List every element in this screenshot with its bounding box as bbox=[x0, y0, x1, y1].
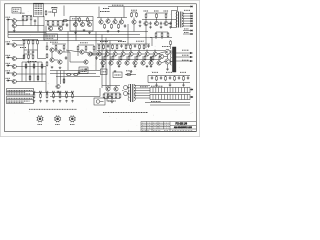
T2 secondary wire bbox=[134, 87, 150, 89]
wire bbox=[9, 43, 12, 45]
ground bbox=[13, 30, 16, 32]
wire bbox=[138, 50, 140, 52]
label K1 bbox=[13, 8, 20, 10]
resistor R8a bbox=[23, 54, 25, 60]
wire bbox=[41, 62, 43, 82]
resistor R38 bbox=[85, 46, 87, 52]
filter choke box L1 bbox=[107, 97, 112, 102]
transistor Q11 bbox=[48, 26, 52, 30]
ground bbox=[85, 68, 88, 70]
resistor R28a bbox=[63, 20, 69, 22]
TB1 divider bbox=[163, 88, 165, 93]
wire bbox=[155, 38, 157, 40]
wire bbox=[93, 51, 95, 56]
meter M1 box bbox=[94, 98, 105, 105]
label A3 row1 bbox=[81, 68, 87, 70]
transistor Q17 bbox=[132, 20, 136, 24]
wire bbox=[54, 13, 56, 17]
title block cell text bbox=[142, 122, 146, 124]
wire bbox=[9, 80, 12, 82]
table text row 3 bbox=[8, 93, 31, 95]
resistor R33a bbox=[46, 45, 48, 51]
transistor Q5 bbox=[12, 64, 16, 68]
wire bbox=[156, 20, 158, 22]
legend line 5 bbox=[35, 11, 43, 13]
wire bbox=[161, 38, 163, 40]
TB1 divider bbox=[155, 88, 157, 93]
transistor Q7 bbox=[12, 79, 16, 83]
driver transformer winding bbox=[170, 50, 171, 65]
wire bbox=[110, 56, 112, 61]
wire bbox=[170, 46, 172, 50]
label TP5 bbox=[59, 90, 62, 92]
transistor Q37 bbox=[117, 61, 121, 65]
ground bbox=[59, 100, 62, 102]
module A2 enclosure bbox=[70, 17, 93, 32]
resistor R23 bbox=[79, 17, 81, 23]
transistor Q33 bbox=[137, 52, 141, 56]
TB1 divider bbox=[183, 88, 185, 93]
label TP4 bbox=[52, 90, 55, 92]
resistor R33c bbox=[46, 61, 48, 67]
wire bbox=[16, 58, 24, 60]
wire bbox=[63, 50, 65, 52]
label C14 bbox=[180, 71, 186, 73]
transistor Q4 bbox=[12, 56, 16, 60]
wire bbox=[75, 16, 77, 41]
wire bbox=[63, 71, 65, 85]
label A5 bbox=[103, 8, 109, 10]
title block cell text bbox=[165, 125, 169, 127]
resistor R24 bbox=[87, 17, 89, 23]
transistor Q16 bbox=[119, 20, 123, 24]
resistor R net bbox=[25, 64, 27, 70]
resistor R5 bbox=[28, 40, 30, 46]
transistor Q24 bbox=[80, 50, 84, 54]
resistor CR5 bbox=[119, 93, 121, 99]
TB1 divider bbox=[186, 88, 188, 93]
label output bbox=[182, 49, 189, 51]
wire bbox=[165, 19, 167, 20]
TB2 divider bbox=[163, 95, 165, 100]
terminal output 57 bbox=[190, 56, 192, 58]
wire bbox=[190, 89, 193, 91]
TB1 divider bbox=[181, 88, 183, 93]
ground bbox=[88, 32, 91, 34]
legend line 1 bbox=[35, 4, 43, 6]
T2 secondary wire bbox=[134, 85, 150, 87]
transistor Q38 bbox=[159, 54, 164, 59]
capacitor C20 bbox=[149, 22, 151, 26]
test point arrow TP7 bbox=[72, 93, 74, 95]
bus wire y=34.5 bbox=[8, 34, 140, 36]
wire bbox=[33, 62, 35, 82]
wire bbox=[22, 61, 42, 63]
module label box A3 bbox=[79, 67, 88, 74]
wire bbox=[190, 6, 193, 8]
ground bbox=[169, 84, 172, 86]
label output3 bbox=[182, 59, 189, 61]
wire bbox=[56, 71, 58, 85]
wire bbox=[75, 21, 77, 23]
wire bbox=[25, 62, 27, 82]
wire bbox=[37, 62, 39, 82]
wire bbox=[29, 62, 31, 82]
table text row 2 bbox=[8, 91, 26, 93]
title block cell text bbox=[159, 125, 163, 127]
TB1 divider bbox=[152, 88, 154, 93]
ground bbox=[71, 100, 74, 102]
wire bbox=[50, 73, 96, 75]
terminal output 61 bbox=[190, 60, 192, 62]
resistor R31a bbox=[131, 12, 133, 18]
wire bbox=[100, 18, 102, 20]
label C12 bbox=[166, 71, 172, 73]
resistor R67 bbox=[130, 44, 132, 50]
resistor R66 bbox=[125, 44, 127, 50]
wire bbox=[21, 25, 31, 27]
scan edge shading bbox=[0, 0, 199, 136]
terminal aux out 30.5 bbox=[191, 30, 193, 32]
table text row 1 bbox=[8, 89, 33, 91]
wire bbox=[16, 66, 46, 68]
resistor R net bbox=[33, 64, 35, 70]
wire bbox=[141, 53, 144, 55]
resistor R8c bbox=[32, 54, 34, 60]
transistor Q6 bbox=[12, 72, 16, 76]
potentiometer R20 GAIN bbox=[37, 115, 44, 122]
resistor R63 bbox=[112, 44, 114, 50]
wire bbox=[62, 51, 70, 53]
wire bbox=[146, 50, 148, 52]
label Q17 bbox=[131, 9, 137, 11]
resistor R53 bbox=[156, 76, 158, 82]
TB2 divider bbox=[186, 95, 188, 100]
wire bbox=[70, 61, 84, 63]
resistor R52b bbox=[161, 32, 163, 38]
title block cell text bbox=[159, 127, 163, 129]
wire bbox=[28, 45, 30, 50]
wire bbox=[164, 56, 168, 58]
transistor Q40 bbox=[106, 87, 110, 91]
wire bbox=[82, 21, 84, 23]
terminal T1 out 13.5 bbox=[191, 13, 193, 15]
wire bbox=[142, 19, 176, 21]
test point arrow TP4 bbox=[53, 93, 55, 95]
resistor R84 bbox=[136, 55, 138, 61]
bus wire y=37.5 bbox=[8, 37, 152, 39]
label J4 bbox=[6, 62, 11, 64]
TB2 divider bbox=[161, 95, 163, 100]
wire bbox=[125, 53, 128, 55]
label J2 bbox=[6, 41, 11, 43]
wire bbox=[114, 18, 116, 20]
TB2 divider bbox=[169, 95, 171, 100]
wire bbox=[55, 50, 57, 52]
wire bbox=[16, 73, 46, 75]
input terminal J5 input bbox=[6, 72, 9, 74]
label Q19 bbox=[154, 10, 159, 12]
resistor R net bbox=[29, 75, 31, 81]
resistor R14 bbox=[59, 93, 61, 99]
TB2 divider bbox=[183, 95, 185, 100]
label detail bbox=[100, 11, 110, 13]
wire bbox=[98, 7, 100, 18]
capacitor C32 bbox=[107, 44, 109, 48]
wire bbox=[109, 53, 112, 55]
wire bbox=[156, 19, 158, 20]
capacitor C14 bbox=[169, 76, 171, 80]
label R21 bbox=[55, 124, 60, 126]
ground bbox=[169, 26, 172, 28]
wire bbox=[31, 25, 44, 27]
transistor Q1 bbox=[12, 19, 16, 23]
wire bbox=[23, 50, 25, 59]
resistor R7 bbox=[37, 40, 39, 46]
label TP3 bbox=[46, 90, 49, 92]
wire bbox=[167, 55, 169, 59]
wire bbox=[38, 58, 47, 60]
ground bbox=[149, 26, 152, 28]
label T1 bbox=[184, 9, 190, 11]
resistor R16 bbox=[72, 93, 74, 99]
transistor Q29 bbox=[105, 52, 109, 56]
resistor R51 bbox=[170, 40, 172, 46]
TB2 divider bbox=[155, 95, 157, 100]
test point arrow TP5 bbox=[59, 93, 61, 95]
T2 secondary wire bbox=[134, 95, 150, 97]
wire bbox=[46, 42, 48, 45]
title block cell text bbox=[142, 127, 146, 129]
wire bbox=[121, 18, 123, 20]
TB2 divider bbox=[175, 95, 177, 100]
sheet border frame bbox=[5, 4, 197, 132]
transistor Q41 bbox=[149, 61, 153, 65]
output wire bbox=[176, 60, 192, 62]
transistor Q30 bbox=[113, 52, 117, 56]
transistor Q19 bbox=[154, 21, 158, 25]
wire bbox=[37, 17, 39, 32]
wire bbox=[150, 56, 152, 61]
output wire bbox=[176, 56, 192, 58]
wire bbox=[60, 71, 62, 85]
wire bbox=[21, 62, 23, 82]
wire bbox=[126, 56, 128, 61]
wire bbox=[122, 50, 124, 52]
bus wire heavy left bbox=[8, 32, 46, 34]
wire bbox=[21, 20, 27, 22]
bus wire y=31.5 bbox=[8, 31, 148, 33]
wire bbox=[157, 52, 164, 54]
label M1 bbox=[108, 100, 116, 102]
transistor Q32 bbox=[129, 52, 133, 56]
wire bbox=[22, 39, 38, 41]
ground bbox=[107, 30, 110, 32]
test point rail bbox=[34, 92, 73, 94]
wire bbox=[134, 56, 136, 61]
input terminal J1 input bbox=[6, 19, 9, 21]
label C4 bbox=[52, 7, 57, 9]
transformer T1 enclosure bbox=[172, 11, 177, 28]
ground bbox=[117, 30, 120, 32]
wire bbox=[13, 28, 15, 30]
resistor R net bbox=[41, 64, 43, 70]
ground bbox=[155, 84, 158, 86]
tube V2 plate circle bbox=[124, 92, 128, 96]
title block bbox=[141, 122, 196, 132]
transistor Q14 bbox=[106, 19, 110, 23]
wire bbox=[70, 20, 93, 22]
wire bbox=[95, 32, 97, 71]
transistor Q2 bbox=[12, 24, 16, 28]
label R3a bbox=[49, 11, 53, 13]
wire bbox=[146, 12, 168, 14]
title block cell text bbox=[165, 127, 169, 129]
label A3 row2 bbox=[81, 71, 87, 73]
wire bbox=[165, 20, 167, 22]
transistor Q3 bbox=[12, 43, 16, 47]
table2 text row 2 bbox=[8, 100, 30, 102]
wire bbox=[156, 31, 168, 33]
resistor R3a bbox=[45, 10, 47, 16]
transistor Q20 bbox=[164, 21, 168, 25]
secondary output wire bbox=[182, 25, 193, 27]
resistor CR1 bbox=[103, 93, 105, 99]
label Q20 bbox=[164, 10, 169, 12]
ground bbox=[114, 70, 117, 72]
scan noise speckles bbox=[10, 4, 192, 131]
terminal B+ terminal bbox=[191, 6, 193, 8]
transformer T2 bbox=[128, 84, 135, 102]
label TP6 bbox=[65, 90, 68, 92]
ground bbox=[52, 100, 55, 102]
transistor Q35 bbox=[153, 52, 157, 56]
resistor R57 bbox=[174, 76, 176, 82]
capacitor C16 bbox=[178, 76, 180, 80]
wire bbox=[63, 6, 65, 17]
label TP7 bbox=[71, 90, 74, 92]
TB1 divider bbox=[158, 88, 160, 93]
bias rail bbox=[97, 43, 150, 45]
TB1 divider bbox=[166, 88, 168, 93]
relay K1 box bbox=[12, 8, 21, 14]
wire bbox=[128, 87, 130, 89]
wire bbox=[132, 11, 137, 13]
terminal output 53 bbox=[190, 52, 192, 54]
output wire bbox=[176, 52, 192, 54]
resistor R12 bbox=[46, 93, 48, 99]
wire bbox=[77, 51, 79, 56]
secondary output wire bbox=[182, 18, 193, 20]
wire bbox=[78, 44, 94, 46]
resistor R10 bbox=[33, 93, 35, 99]
wire bbox=[48, 25, 63, 27]
wire bbox=[51, 52, 53, 58]
test point arrow TP2 bbox=[40, 93, 42, 95]
ground bbox=[118, 65, 121, 67]
resistor R13 bbox=[53, 93, 55, 99]
ground bbox=[57, 91, 60, 93]
ground bbox=[39, 100, 42, 102]
wire bbox=[114, 50, 116, 52]
wire bbox=[50, 70, 100, 72]
test point arrow TP1 bbox=[33, 93, 35, 95]
wire bbox=[101, 35, 103, 89]
resistor R4 bbox=[23, 40, 25, 46]
wire bbox=[107, 86, 109, 87]
ground bbox=[146, 65, 149, 67]
wire bbox=[161, 62, 165, 64]
transistor Q38 bbox=[125, 61, 129, 65]
wire bbox=[145, 19, 147, 20]
resistor R34 bbox=[165, 13, 167, 19]
wire bbox=[118, 56, 120, 61]
TB2 divider bbox=[152, 95, 154, 100]
transistor Q12 bbox=[58, 26, 62, 30]
wire bbox=[127, 24, 129, 46]
wire bbox=[145, 24, 147, 48]
label Q28-Q30 bbox=[100, 41, 108, 43]
resistor R72 bbox=[150, 56, 152, 62]
potentiometer R21 BIAS bbox=[54, 115, 61, 122]
wire bbox=[45, 20, 70, 22]
wire bbox=[102, 85, 120, 87]
transistor Q39 bbox=[133, 61, 137, 65]
label Q34-Q36 bbox=[136, 40, 144, 42]
wire bbox=[105, 38, 107, 89]
wire bbox=[84, 51, 88, 54]
resistor R85 bbox=[144, 55, 146, 61]
wire bbox=[7, 20, 9, 38]
transistor Q42 bbox=[157, 61, 161, 65]
label R1-R3 bbox=[20, 12, 25, 14]
label T2 out bbox=[140, 86, 148, 88]
resistor R81 bbox=[112, 55, 114, 61]
resistor R37 bbox=[77, 46, 79, 52]
label aux bbox=[184, 31, 189, 33]
resistor R6 bbox=[32, 40, 34, 46]
resistor R26 bbox=[52, 21, 54, 27]
wire bbox=[148, 82, 190, 84]
label A6 row2 bbox=[46, 37, 54, 39]
wire bbox=[16, 81, 46, 83]
TB2 divider bbox=[181, 95, 183, 100]
row rail 2 bbox=[99, 59, 161, 61]
label Q31-Q33 bbox=[118, 41, 126, 43]
wire bbox=[98, 50, 100, 52]
wire bbox=[149, 53, 152, 55]
TB1 divider bbox=[175, 88, 177, 93]
terminal terminal J8 bbox=[191, 96, 193, 98]
caption: front panel controls bbox=[29, 108, 77, 110]
capacitor C12 bbox=[160, 76, 162, 80]
wire bbox=[56, 76, 100, 78]
input terminal J6 input bbox=[6, 80, 9, 82]
wire bbox=[183, 83, 185, 85]
title block cell text bbox=[153, 127, 157, 129]
label L1 bbox=[107, 94, 112, 96]
transistor Q27 bbox=[56, 84, 60, 88]
resistor R31b bbox=[136, 12, 138, 18]
resistor R25 bbox=[47, 21, 49, 27]
tube V1 plate circle bbox=[124, 86, 128, 90]
wire bbox=[54, 49, 58, 51]
wire bbox=[145, 20, 147, 22]
reference designation table box 1 bbox=[7, 89, 34, 96]
wire bbox=[32, 45, 34, 50]
ground bbox=[33, 100, 36, 102]
wire bbox=[104, 92, 120, 94]
